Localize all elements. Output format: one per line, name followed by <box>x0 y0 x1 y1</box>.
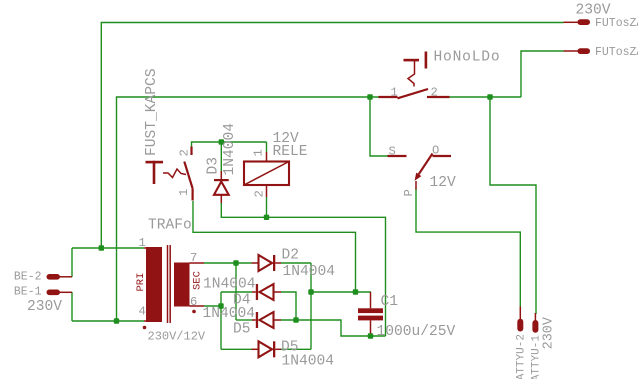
switch FUST_KAPCS <box>146 147 193 201</box>
svg-text:SEC: SEC <box>192 271 204 290</box>
pad FUTOSZAL-1 <box>564 19 591 25</box>
svg-text:RELE: RELE <box>273 144 308 160</box>
svg-text:1N4004: 1N4004 <box>203 277 256 293</box>
wire +12V rail <box>311 291 371 293</box>
svg-text:FUST_KAPCS: FUST_KAPCS <box>144 68 160 156</box>
svg-text:7: 7 <box>190 251 197 265</box>
wire AC2 vertical <box>220 292 222 349</box>
wire relay pin2 stub <box>266 197 268 217</box>
wire BE-2 vertical <box>71 248 73 277</box>
relay coil U1 <box>244 152 289 197</box>
svg-text:C1: C1 <box>381 294 399 310</box>
wire primary top rail <box>72 247 144 249</box>
svg-text:1N4004: 1N4004 <box>283 264 336 280</box>
diode D3 <box>214 171 229 203</box>
svg-text:12V: 12V <box>430 175 457 191</box>
wire FUST pin1 to +12V <box>193 201 356 292</box>
svg-text:BE-2: BE-2 <box>14 271 42 284</box>
wire row4 left <box>221 348 252 350</box>
svg-text:1N4004: 1N4004 <box>282 354 335 370</box>
wire D2 cathode to plus <box>281 262 311 264</box>
wire top 230V rail <box>101 23 563 249</box>
pad BE-1 <box>47 290 73 296</box>
junction node top rail primary <box>99 245 104 250</box>
pad SZIVATTYU-2 <box>517 307 523 332</box>
junction node AC1 <box>233 260 238 265</box>
switch HONOLDO <box>379 52 450 99</box>
svg-text:BE-1: BE-1 <box>14 286 42 299</box>
junction node pump branch <box>487 94 492 99</box>
svg-text:1N4004: 1N4004 <box>222 123 238 176</box>
wire row2 left <box>221 291 252 293</box>
svg-text:1N4004: 1N4004 <box>203 306 256 322</box>
wire to pad SZIVATTYU-1 <box>490 97 536 314</box>
svg-text:1000u/25V: 1000u/25V <box>377 324 456 340</box>
junction node cap minus <box>368 333 373 338</box>
wire relay coil rail <box>192 142 267 148</box>
junction node AC2 <box>218 303 223 308</box>
svg-text:230V: 230V <box>542 316 557 349</box>
svg-text:2: 2 <box>178 149 192 156</box>
svg-text:6: 6 <box>190 295 197 309</box>
svg-text:TRAFo: TRAFo <box>148 218 192 234</box>
svg-text:2: 2 <box>431 86 438 100</box>
transformer TRAFO <box>135 245 204 329</box>
junction node S branch <box>367 94 372 99</box>
svg-text:2: 2 <box>253 190 267 197</box>
pad FUTOSZAL-2 <box>564 48 591 54</box>
svg-text:P: P <box>402 189 416 196</box>
wire S contact branch <box>370 97 388 156</box>
wire row3 right gnd <box>281 320 386 336</box>
wire row2 right down <box>281 292 296 320</box>
wire row3 left <box>236 319 252 321</box>
relay contact 12V <box>388 154 452 190</box>
svg-text:D3: D3 <box>206 157 222 175</box>
junction node D3 coil <box>219 139 224 144</box>
wire AC2 pin6 net <box>204 305 221 307</box>
svg-text:FUTosZAL: FUTosZAL <box>595 17 638 30</box>
svg-text:230V: 230V <box>27 299 62 315</box>
wire AC1 pin7 net <box>204 262 252 264</box>
diode D5 <box>252 312 281 328</box>
svg-text:D2: D2 <box>282 248 300 264</box>
wire P contact to pad SZIVATTYU-2 <box>416 189 520 307</box>
wire AC1 vertical <box>235 263 237 320</box>
svg-text:FUTosZAL: FUTosZAL <box>595 46 638 59</box>
pad SZIVATTYU-1 <box>532 313 538 333</box>
svg-text:1: 1 <box>391 86 398 100</box>
svg-text:O: O <box>432 144 439 158</box>
svg-text:1: 1 <box>139 236 146 250</box>
svg-text:S: S <box>389 145 396 159</box>
wire primary bottom rail <box>72 320 144 322</box>
junction node coil supply <box>353 289 358 294</box>
junction node plus rail <box>308 289 313 294</box>
wire pad2 branch <box>521 51 564 97</box>
wire row4 right <box>281 348 311 350</box>
svg-text:4: 4 <box>139 305 146 319</box>
diode D4 <box>252 284 281 300</box>
diode D2 <box>252 255 282 271</box>
wire bridge plus vertical <box>310 263 312 349</box>
wire switched 230V rail right <box>450 96 522 98</box>
wire switched 230V rail left <box>117 97 379 321</box>
wire coil return rail <box>221 203 385 336</box>
svg-text:SZIVATTYU-2: SZIVATTYU-2 <box>515 334 527 379</box>
capacitor C1 <box>358 292 383 334</box>
svg-text:D5: D5 <box>233 322 251 338</box>
svg-text:1: 1 <box>252 149 266 156</box>
svg-text:HoNoLDo: HoNoLDo <box>434 50 501 66</box>
diode D6 <box>252 341 282 357</box>
junction node bottom rail <box>114 318 119 323</box>
wire BE-1 vertical <box>71 292 73 321</box>
junction node row3 <box>293 317 298 322</box>
junction node coil return <box>264 215 269 220</box>
svg-text:230V/12V: 230V/12V <box>148 330 206 344</box>
svg-text:PRI: PRI <box>135 273 147 292</box>
wire relay pin1 stub <box>266 142 268 152</box>
wire D3 top stub <box>220 142 222 171</box>
pad BE-2 <box>47 274 73 280</box>
svg-text:1: 1 <box>177 189 191 196</box>
